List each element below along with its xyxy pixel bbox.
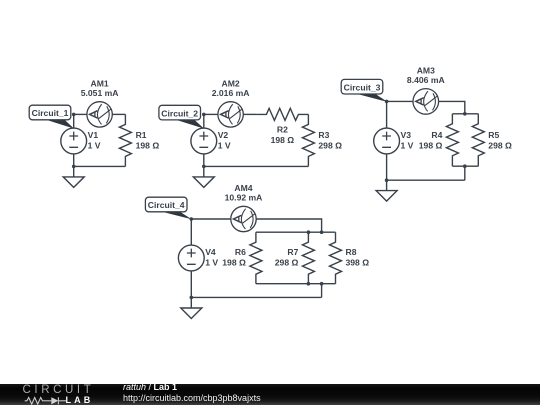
footer logo CIRCUIT — [23, 384, 95, 396]
net flag Circuit_4 pointer — [160, 211, 192, 219]
wire: C1 AM1 to R1 top corner — [112, 113, 125, 115]
wire: C1 to ground — [73, 166, 75, 177]
wire: C2 node to AM2 — [204, 113, 218, 115]
node: C3 bottom junction — [385, 178, 389, 182]
resistor R7 — [302, 232, 314, 284]
svg-text:Circuit_4: Circuit_4 — [148, 200, 185, 210]
resistor R4 — [446, 114, 458, 166]
svg-text:1 V: 1 V — [205, 258, 218, 268]
net flag Circuit_3 pointer — [355, 93, 388, 102]
wire: C2 bottom rail — [204, 165, 309, 167]
footer logo LAB — [66, 395, 94, 405]
resistor R2 — [256, 108, 308, 120]
ground: C2 — [193, 177, 214, 188]
wire: C4 feed down — [321, 284, 323, 298]
wire: C3 feed down — [464, 166, 466, 180]
svg-text:198 Ω: 198 Ω — [222, 258, 246, 268]
svg-text:AM4: AM4 — [234, 183, 252, 193]
svg-text:8.406 mA: 8.406 mA — [407, 75, 445, 85]
svg-text:5.051 mA: 5.051 mA — [81, 88, 119, 98]
svg-text:R4: R4 — [431, 130, 442, 140]
svg-text:R8: R8 — [346, 247, 357, 257]
wire: C3 top rail — [452, 113, 478, 115]
resistor R3 — [302, 114, 314, 166]
footer title text — [123, 382, 177, 392]
node: C3 top junction — [385, 100, 389, 104]
svg-text:2.016 mA: 2.016 mA — [212, 88, 250, 98]
wire: C4 top rail — [256, 231, 336, 233]
svg-text:R7: R7 — [287, 247, 298, 257]
net flag Circuit_2 box — [159, 105, 201, 120]
svg-text:V4: V4 — [205, 247, 216, 257]
voltage source V3 — [374, 128, 400, 154]
node: C1 top junction — [72, 113, 76, 117]
svg-text:1 V: 1 V — [401, 140, 414, 150]
svg-text:Circuit_1: Circuit_1 — [32, 108, 69, 118]
wire: C3 V3 bottom — [386, 154, 388, 180]
wire: C3 to ground — [386, 180, 388, 190]
voltage source V4 — [178, 245, 204, 271]
svg-text:R3: R3 — [318, 130, 329, 140]
resistor R6 — [250, 232, 262, 284]
wire: C1 bottom rail — [74, 165, 126, 167]
ammeter AM3 — [413, 89, 439, 115]
svg-text:1 V: 1 V — [218, 140, 231, 150]
svg-text:Circuit_3: Circuit_3 — [344, 82, 381, 92]
svg-text:10.92 mA: 10.92 mA — [225, 192, 263, 202]
svg-text:AM1: AM1 — [91, 79, 109, 89]
net flag Circuit_1 box — [29, 105, 71, 120]
node: C4 top junction — [190, 217, 194, 221]
node: C4 rail top junction R7 — [307, 230, 311, 234]
svg-text:1 V: 1 V — [88, 140, 101, 150]
wire: C4 bottom rail — [256, 283, 336, 285]
svg-text:AM3: AM3 — [417, 66, 435, 76]
wire: C3 V3 top to node — [386, 101, 388, 128]
svg-text:R5: R5 — [488, 130, 499, 140]
svg-text:V3: V3 — [401, 130, 412, 140]
wire: C3 bottom rail — [452, 165, 478, 167]
resistor R8 — [330, 232, 342, 284]
node: C2 bottom junction — [202, 165, 206, 169]
wire: C4 V4 top to node — [190, 219, 192, 245]
svg-text:298 Ω: 298 Ω — [488, 140, 512, 150]
ground: C3 — [376, 191, 397, 202]
node: C1 bottom junction — [72, 165, 76, 169]
ground: C4 — [181, 308, 202, 319]
wire: C4 V4 bottom — [190, 271, 192, 298]
svg-text:AM2: AM2 — [222, 79, 240, 89]
svg-text:198 Ω: 198 Ω — [271, 135, 295, 145]
svg-text:R2: R2 — [277, 125, 288, 135]
wire: C3 AM3 to corner — [439, 101, 465, 113]
node: C4 rail top junction feed — [320, 230, 324, 234]
footer bar — [0, 384, 540, 405]
svg-text:V1: V1 — [88, 130, 99, 140]
resistor R1 — [119, 114, 131, 166]
svg-text:R6: R6 — [235, 247, 246, 257]
wire: C4 AM4 to corner — [256, 219, 321, 232]
node: C4 bottom junction — [190, 296, 194, 300]
voltage source V2 — [191, 128, 217, 154]
svg-text:V2: V2 — [218, 130, 229, 140]
ground: C1 — [63, 177, 84, 188]
ammeter AM2 — [218, 102, 243, 127]
footer url text — [123, 393, 261, 403]
svg-text:298 Ω: 298 Ω — [318, 140, 342, 150]
ammeter AM4 — [231, 206, 256, 231]
node: C4 rail bottom junction feed — [320, 282, 324, 286]
node: C4 rail bottom junction R7 — [307, 282, 311, 286]
net flag Circuit_1 pointer — [45, 119, 75, 128]
svg-text:Circuit_2: Circuit_2 — [161, 108, 198, 118]
svg-text:198 Ω: 198 Ω — [419, 140, 443, 150]
net flag Circuit_2 pointer — [174, 119, 204, 128]
wire: C3 bottom wire — [387, 179, 465, 181]
wire: C1 V1 top to node — [73, 114, 75, 128]
node: C2 top junction — [202, 113, 206, 117]
wire: C1 node to AM1 — [74, 113, 87, 115]
wire: C2 V2 bottom — [203, 154, 205, 167]
net flag Circuit_4 box — [145, 197, 187, 212]
node: C3 rail top junction — [463, 112, 467, 116]
wire: C2 AM2 to R2 — [243, 113, 256, 115]
wire: C4 bottom wire — [191, 296, 321, 298]
wire: C2 V2 top to node — [203, 114, 205, 128]
wire: C2 to ground — [203, 166, 205, 177]
net flag Circuit_3 box — [341, 79, 383, 94]
svg-text:198 Ω: 198 Ω — [136, 140, 160, 150]
ammeter AM1 — [87, 102, 112, 127]
footer logo resistor-diode glyph — [23, 396, 69, 405]
svg-text:398 Ω: 398 Ω — [346, 258, 370, 268]
resistor R5 — [472, 114, 484, 166]
wire: C4 node to AM4 — [191, 218, 231, 220]
svg-text:R1: R1 — [136, 130, 147, 140]
wire: C4 to ground — [190, 297, 192, 308]
voltage source V1 — [61, 128, 87, 154]
svg-text:298 Ω: 298 Ω — [275, 258, 299, 268]
node: C3 rail bottom junction — [463, 164, 467, 168]
wire: C3 node to AM3 — [387, 100, 413, 102]
wire: C1 V1 bottom — [73, 154, 75, 167]
